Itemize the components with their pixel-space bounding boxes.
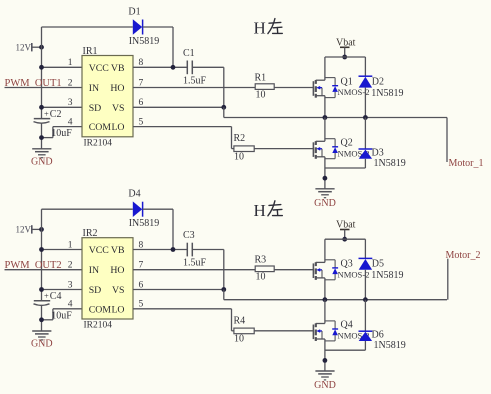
- junction 12V rail: [39, 45, 44, 50]
- svg-text:R1: R1: [255, 73, 267, 84]
- junction VS node: [221, 105, 226, 110]
- title text H-left: [254, 201, 283, 220]
- wire pin 1 VCC to rail: [42, 249, 83, 251]
- capacitor C3 1.5uF: [183, 230, 207, 268]
- svg-text:10: 10: [256, 272, 266, 283]
- ground GND left: [31, 149, 53, 168]
- wire pin 5 LO to gate resistor: [133, 309, 234, 331]
- wire pin 6 VS: [133, 289, 224, 291]
- svg-text:D2: D2: [372, 76, 384, 87]
- svg-text:Q3: Q3: [341, 259, 353, 270]
- wire D3 cathode to phase rail: [364, 118, 366, 150]
- junction pin1/rail: [39, 247, 44, 252]
- svg-text:H: H: [254, 19, 266, 38]
- wire C right plate to VS node: [192, 250, 224, 290]
- svg-text:GND: GND: [31, 339, 53, 350]
- wire R4 to Q4 gate: [254, 330, 313, 332]
- junction source/ground: [323, 176, 328, 181]
- wire D6 cathode to phase rail: [364, 300, 366, 332]
- svg-text:COM: COM: [89, 122, 112, 133]
- svg-text:Q1: Q1: [341, 76, 353, 87]
- junction Vbat rail: [342, 237, 347, 242]
- wire Q3 source to phase node: [324, 278, 326, 300]
- junction pin3/rail: [39, 105, 44, 110]
- power port 12V: [16, 225, 42, 235]
- op-amp/driver IC IR2 IR2104: [82, 228, 133, 331]
- ground GND left: [31, 331, 53, 350]
- svg-text:D5: D5: [372, 259, 384, 270]
- svg-text:IN5819: IN5819: [129, 36, 160, 47]
- svg-text:1N5819: 1N5819: [374, 340, 406, 351]
- svg-text:R2: R2: [234, 133, 246, 144]
- junction VS node: [221, 287, 226, 292]
- wire VS jog down to phase rail: [223, 107, 225, 117]
- svg-text:NMOS-2: NMOS-2: [338, 87, 370, 97]
- svg-text:8: 8: [139, 240, 144, 250]
- junction phase/diode: [363, 115, 368, 120]
- svg-text:10: 10: [256, 89, 266, 100]
- svg-text:10: 10: [234, 334, 244, 345]
- junction source/ground: [323, 358, 328, 363]
- svg-text:1: 1: [68, 240, 73, 250]
- svg-text:C2: C2: [50, 109, 62, 120]
- svg-text:D1: D1: [128, 7, 140, 18]
- junction phase/Q source: [323, 297, 328, 302]
- svg-text:H: H: [254, 201, 266, 220]
- svg-text:R4: R4: [234, 315, 246, 326]
- svg-text:IR1: IR1: [83, 46, 98, 57]
- diode D6 1N5819 low side: [359, 330, 406, 352]
- svg-text:NMOS-2: NMOS-2: [338, 269, 370, 279]
- svg-text:5: 5: [139, 117, 144, 127]
- svg-text:C4: C4: [50, 291, 62, 302]
- junction phase/Q source: [323, 115, 328, 120]
- svg-text:6: 6: [139, 280, 144, 290]
- svg-text:12V: 12V: [16, 225, 32, 235]
- svg-text:1N5819: 1N5819: [374, 158, 406, 169]
- svg-text:10uF: 10uF: [51, 128, 72, 139]
- resistor R2 10: [234, 133, 255, 162]
- title text H-left: [254, 19, 283, 38]
- svg-text:Q2: Q2: [341, 137, 353, 148]
- svg-text:COM: COM: [89, 304, 112, 315]
- svg-text:IR2104: IR2104: [84, 139, 113, 149]
- wire D2 cathode to Vbat rail: [364, 57, 366, 76]
- wire C right plate to VS node: [192, 67, 224, 107]
- transistor Q3 NMOS-2 high side: [313, 259, 369, 280]
- resistor R3 10: [255, 255, 275, 283]
- svg-text:R3: R3: [255, 255, 267, 266]
- svg-text:7: 7: [139, 261, 144, 271]
- junction pin1/rail: [39, 65, 44, 70]
- op-amp/driver IC IR1 IR2104: [82, 46, 133, 149]
- wire pin 4 COM return to rail bottom: [42, 127, 83, 138]
- wire pin 5 LO to gate resistor: [133, 127, 234, 149]
- wire left 12V rail vertical: [41, 27, 43, 149]
- power port Vbat: [336, 37, 356, 57]
- wire pin 1 VCC to rail: [42, 66, 83, 68]
- wire pin 3 SD to rail: [42, 289, 83, 291]
- svg-text:HO: HO: [110, 83, 124, 94]
- wire Q1 drain to Vbat rail: [324, 57, 326, 80]
- svg-text:12V: 12V: [16, 42, 32, 52]
- wire Q2 source down to ground: [324, 157, 326, 189]
- wire pin 8 VB to bootstrap cap: [133, 66, 187, 68]
- wire VS jog down to phase rail: [223, 290, 225, 300]
- net label Motor_1 with stub wire: [447, 118, 484, 170]
- wire Q4 drain to phase rail: [324, 300, 326, 324]
- junction VB node: [171, 65, 176, 70]
- svg-text:8: 8: [139, 58, 144, 68]
- power port 12V: [16, 42, 42, 52]
- diode D1 IN5819 bootstrap: [128, 7, 159, 48]
- diode D2 1N5819 high side: [359, 76, 404, 99]
- svg-text:IR2: IR2: [83, 228, 98, 239]
- svg-text:3: 3: [68, 280, 73, 290]
- wire D5 cathode to Vbat rail: [364, 239, 366, 258]
- svg-text:+: +: [44, 108, 49, 118]
- wire R2 to Q2 gate: [254, 148, 313, 150]
- svg-text:Motor_2: Motor_2: [446, 250, 481, 261]
- wire from D4 cathode to VB node: [143, 209, 173, 249]
- svg-text:VB: VB: [111, 63, 125, 74]
- ground GND bridge: [314, 371, 336, 391]
- wire Q3 drain to Vbat rail: [324, 239, 326, 262]
- wire PWM_OUT2 to pin 2 IN: [5, 269, 83, 271]
- wire phase rail (VS / motor output): [224, 299, 447, 301]
- junction phase/diode: [363, 297, 368, 302]
- junction C-bottom/COM/GND: [39, 317, 44, 322]
- svg-text:10uF: 10uF: [51, 310, 72, 321]
- ground GND bridge: [314, 189, 336, 209]
- svg-text:C3: C3: [183, 230, 195, 241]
- capacitor C4 10uF electrolytic: [34, 291, 73, 322]
- svg-text:D3: D3: [372, 148, 384, 159]
- svg-text:SD: SD: [89, 103, 102, 114]
- junction Vbat rail: [342, 55, 347, 60]
- svg-text:10: 10: [234, 151, 244, 162]
- svg-text:LO: LO: [111, 122, 124, 133]
- wire from D1 cathode to VB node: [143, 27, 173, 67]
- diode D4 IN5819 bootstrap: [128, 189, 159, 230]
- svg-text:GND: GND: [31, 157, 53, 168]
- svg-text:Motor_1: Motor_1: [449, 158, 484, 169]
- transistor Q2 NMOS-2 low side: [313, 137, 369, 158]
- svg-text:Q4: Q4: [341, 320, 353, 331]
- svg-text:VCC: VCC: [89, 245, 109, 256]
- diode D3 1N5819 low side: [359, 148, 406, 170]
- wire D2 anode to phase node: [364, 88, 366, 118]
- svg-text:HO: HO: [110, 265, 124, 276]
- wire D3 anode to source node: [325, 159, 366, 168]
- wire Q2 drain to phase rail: [324, 118, 326, 142]
- svg-text:GND: GND: [314, 380, 336, 391]
- svg-text:C1: C1: [183, 48, 195, 59]
- svg-text:D4: D4: [128, 189, 140, 200]
- svg-text:1N5819: 1N5819: [371, 270, 403, 281]
- svg-text:4: 4: [68, 300, 73, 310]
- wire R1 to Q1 gate: [274, 87, 313, 89]
- svg-text:IN: IN: [89, 83, 99, 94]
- pin numbers IR1 (1,2,3,4,8,7,6,5): [68, 58, 144, 127]
- junction pin3/rail: [39, 287, 44, 292]
- svg-text:1: 1: [68, 58, 73, 68]
- wire top horizontal from 12V rail to D1 anode: [42, 26, 133, 28]
- svg-text:VB: VB: [111, 245, 125, 256]
- transistor Q1 NMOS-2 high side: [313, 76, 369, 97]
- svg-text:2: 2: [68, 78, 73, 88]
- wire Q1 source to phase node: [324, 96, 326, 118]
- svg-text:IR2104: IR2104: [84, 321, 113, 331]
- svg-text:5: 5: [139, 300, 144, 310]
- svg-text:1N5819: 1N5819: [371, 88, 403, 99]
- wire left 12V rail vertical: [41, 209, 43, 331]
- diode D5 1N5819 high side: [359, 258, 404, 281]
- wire pin 3 SD to rail: [42, 106, 83, 108]
- junction C-bottom/COM/GND: [39, 135, 44, 140]
- wire pin 7 HO to gate resistor: [133, 87, 255, 89]
- wire pin 4 COM return to rail bottom: [42, 309, 83, 320]
- svg-text:2: 2: [68, 261, 73, 271]
- resistor R1 10: [255, 73, 275, 101]
- svg-text:VS: VS: [112, 285, 125, 296]
- svg-text:+: +: [44, 291, 49, 301]
- capacitor C2 10uF electrolytic: [34, 108, 73, 139]
- svg-text:1.5uF: 1.5uF: [183, 258, 207, 269]
- wire pin 7 HO to gate resistor: [133, 269, 255, 271]
- wire pin 8 VB to bootstrap cap: [133, 249, 187, 251]
- junction VB node: [171, 247, 176, 252]
- wire D6 anode to source node: [325, 341, 366, 350]
- wire Q4 source down to ground: [324, 339, 326, 371]
- svg-text:6: 6: [139, 98, 144, 108]
- wire top horizontal from 12V rail to D4 anode: [42, 208, 133, 210]
- svg-text:IN: IN: [89, 265, 99, 276]
- svg-text:1.5uF: 1.5uF: [183, 75, 207, 86]
- svg-text:IN5819: IN5819: [129, 218, 160, 229]
- wire Vbat top rail: [325, 238, 366, 240]
- svg-text:LO: LO: [111, 304, 124, 315]
- capacitor C1 1.5uF: [183, 48, 207, 86]
- pin numbers IR2 (1,2,3,4,8,7,6,5): [68, 240, 144, 309]
- svg-text:3: 3: [68, 98, 73, 108]
- svg-text:GND: GND: [314, 198, 336, 209]
- wire Vbat top rail: [325, 56, 366, 58]
- wire PWM_OUT1 to pin 2 IN: [5, 87, 83, 89]
- transistor Q4 NMOS-2 low side: [313, 320, 369, 341]
- svg-text:SD: SD: [89, 285, 102, 296]
- svg-text:7: 7: [139, 78, 144, 88]
- wire pin 6 VS: [133, 106, 224, 108]
- svg-text:4: 4: [68, 117, 73, 127]
- wire R3 to Q3 gate: [274, 269, 313, 271]
- resistor R4 10: [234, 315, 255, 344]
- svg-text:D6: D6: [372, 330, 384, 341]
- svg-text:VCC: VCC: [89, 63, 109, 74]
- power port Vbat: [336, 220, 356, 240]
- svg-text:VS: VS: [112, 103, 125, 114]
- wire D5 anode to phase node: [364, 270, 366, 300]
- net label Motor_2 with stub wire: [446, 250, 481, 300]
- wire phase rail (VS / motor output): [224, 117, 447, 119]
- junction 12V rail: [39, 227, 44, 232]
